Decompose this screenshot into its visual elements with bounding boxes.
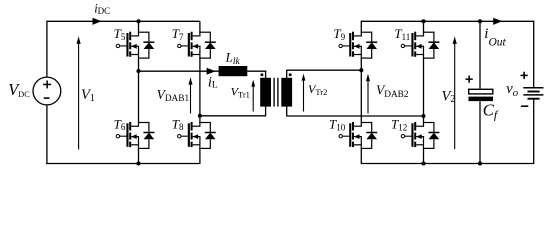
voltage source V_DC: [33, 77, 61, 105]
wire leg B to bottom rail: [199, 148, 201, 163]
capacitor plus sign: [466, 76, 473, 83]
capacitor C_f: [469, 89, 494, 101]
voltage arrow V_1: [77, 36, 81, 149]
transistor T5: [114, 26, 155, 59]
svg-text:T8: T8: [172, 116, 184, 132]
wire secondary to leg C: [286, 69, 361, 71]
wire bottom rail right: [361, 163, 534, 165]
node dot leg B / primary return: [198, 114, 202, 118]
wire leg C drain feed: [360, 21, 362, 33]
node dot top rail / leg A: [136, 19, 140, 23]
wire leg D drain feed: [423, 21, 425, 32]
wire primary bottom lead: [265, 106, 267, 116]
battery minus sign: [521, 105, 528, 107]
wire leg A source to mid node: [138, 58, 140, 71]
svg-text:iL: iL: [208, 75, 218, 91]
wire leg B drain feed: [199, 21, 201, 32]
wire primary return to leg B: [200, 115, 266, 117]
svg-text:V2: V2: [442, 88, 456, 105]
wire leg D to bottom rail: [423, 148, 425, 163]
wire leg C source to mid: [360, 58, 362, 70]
node dot bottom rail / leg D: [421, 161, 425, 165]
svg-text:T6: T6: [114, 116, 126, 132]
current arrow i_Out: [493, 18, 502, 25]
transistor T9: [333, 26, 377, 59]
transformer secondary winding: [281, 78, 292, 107]
node dot top rail / capacitor: [478, 19, 482, 23]
svg-text:T7: T7: [172, 26, 184, 42]
battery v_o: [523, 88, 543, 99]
wire leg A drain feed: [138, 21, 140, 32]
svg-text:VDAB2: VDAB2: [376, 83, 409, 100]
svg-text:iDC: iDC: [94, 2, 110, 17]
transistor T8: [172, 116, 216, 149]
wire secondary top lead: [286, 70, 288, 78]
transistor T12: [391, 117, 439, 149]
wire V_DC branch bottom: [46, 105, 48, 164]
transformer core: [274, 78, 278, 107]
current arrow i_DC: [93, 18, 102, 25]
svg-text:T12: T12: [391, 117, 407, 133]
wire secondary return to leg D: [286, 115, 423, 117]
svg-text:Llk: Llk: [225, 50, 241, 67]
wire capacitor bottom: [479, 101, 481, 163]
svg-text:Cf: Cf: [483, 100, 499, 121]
node dot bottom rail / leg A: [136, 161, 140, 165]
polarity dot secondary: [289, 73, 292, 76]
wire top rail left: [47, 20, 200, 22]
voltage arrow V_Tr2: [302, 74, 306, 112]
wire battery branch bottom: [533, 99, 535, 164]
wire secondary bottom lead: [286, 106, 288, 116]
voltage arrow V_DAB1: [189, 77, 193, 113]
wire leg C mid to T10: [360, 70, 362, 122]
svg-text:VTr2: VTr2: [308, 82, 327, 97]
wire V_DC branch top: [46, 21, 48, 77]
transformer primary winding: [260, 78, 271, 107]
wire primary top lead: [265, 71, 267, 78]
node dot leg C mid: [359, 68, 363, 72]
wire inductor to primary: [247, 70, 266, 72]
inductor L_lk: [219, 66, 248, 76]
wire battery branch top: [533, 21, 535, 88]
wire leg B source to T8: [199, 58, 201, 122]
svg-text:T5: T5: [114, 26, 126, 42]
voltage arrow V_DAB2: [366, 74, 370, 114]
node dot top rail / leg D: [421, 19, 425, 23]
svg-text:V1: V1: [81, 87, 95, 104]
transistor T6: [114, 116, 155, 149]
svg-text:VDAB1: VDAB1: [157, 87, 190, 104]
battery plus sign: [521, 72, 528, 79]
svg-text:vo: vo: [506, 81, 518, 99]
transistor T11: [394, 26, 439, 59]
wire top rail right: [361, 20, 534, 22]
wire capacitor top: [479, 21, 481, 89]
voltage arrow V_2: [453, 36, 457, 149]
svg-text:T11: T11: [394, 26, 410, 42]
wire bottom rail left: [46, 163, 200, 165]
node dot leg D / secondary return: [421, 114, 425, 118]
polarity dot primary: [260, 73, 263, 76]
wire leg A to bottom rail: [138, 148, 140, 163]
node dot bottom rail / capacitor: [478, 161, 482, 165]
svg-text:T9: T9: [333, 26, 345, 42]
wire leg A mid to T6: [138, 71, 140, 123]
voltage arrow V_Tr1: [251, 80, 255, 112]
wire leg C to bottom rail: [360, 148, 362, 164]
svg-text:iOut: iOut: [484, 26, 506, 49]
transistor T7: [172, 26, 216, 59]
wire mid A to inductor: [139, 70, 219, 72]
svg-text:T10: T10: [329, 117, 346, 133]
transistor T10: [329, 117, 377, 149]
svg-text:VDC: VDC: [8, 80, 30, 99]
wire leg D source to T12: [423, 58, 425, 122]
current arrow i_L: [207, 68, 216, 75]
node dot leg A mid: [136, 69, 140, 73]
svg-text:VTr1: VTr1: [231, 84, 250, 99]
